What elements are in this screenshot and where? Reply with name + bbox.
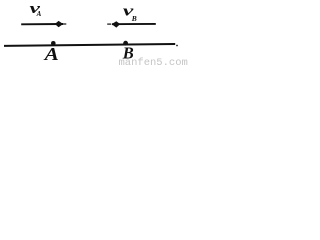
point B dot xyxy=(123,41,128,46)
svg-text:B: B xyxy=(131,14,137,23)
point A dot xyxy=(51,41,56,46)
label v_A xyxy=(30,1,42,18)
velocity vector v_A arrow (points right) xyxy=(21,21,66,27)
svg-text:manfen5.com: manfen5.com xyxy=(119,57,188,66)
label v_B xyxy=(123,4,137,24)
ground line xyxy=(4,44,175,46)
speck after line end xyxy=(176,45,178,47)
velocity vector v_B arrow (points left) xyxy=(107,22,156,28)
svg-text:A: A xyxy=(36,10,42,18)
svg-text:A: A xyxy=(43,44,58,64)
